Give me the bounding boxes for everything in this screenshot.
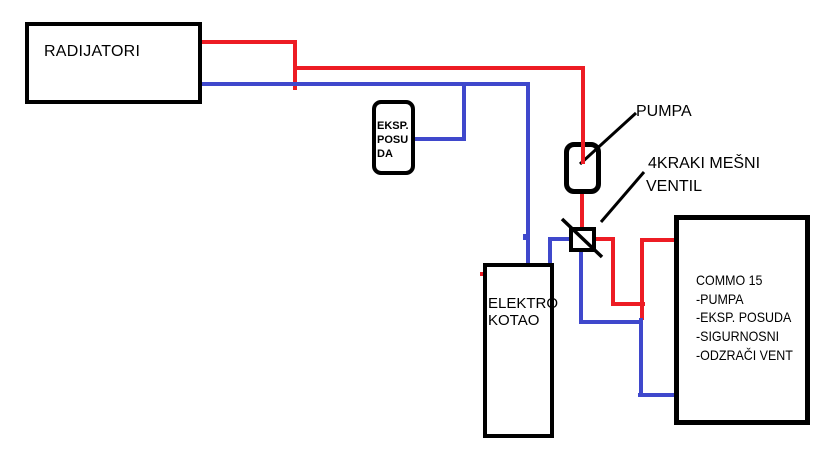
box ELEKTRO KOTAO [483,263,554,438]
wire red: down segment of U loop [611,237,615,306]
wire red: valve right outlet horizontal [595,237,615,241]
box RADIJATORI [25,22,202,104]
wire blue: valve left inlet horizontal [548,237,570,241]
wire blue: valve left drop to kotao top [548,237,552,266]
wire red: up segment of U loop [640,240,644,320]
wire blue: vertical down right side [639,318,643,397]
valve diagonal slash [562,219,602,257]
box EKSP. POSUDA (expansion vessel) [372,100,415,175]
box COMMO 15 [674,215,810,425]
node blue nub on main vertical [523,234,527,240]
pump symbol [564,142,601,194]
valve symbol: square [569,227,596,252]
wire red supply: radiator out horizontal [202,40,297,44]
node yellow tick inside COMMO at blue line [684,393,686,397]
wire blue: expansion vessel branch horizontal [415,137,466,141]
wire blue return: radiator long horizontal [202,82,530,86]
wire blue: into COMMO box horizontal [638,393,676,397]
label PUMPA [636,103,692,121]
node red tick at kotao top-left [480,272,483,276]
label 4KRAKI MESNI VENTIL [648,153,760,198]
wire red supply: first drop vertical (crosses blue return) [293,40,297,90]
pointer line VENTIL [601,172,644,222]
wire red: into COMMO box horizontal [640,238,676,242]
wire blue: horizontal toward COMMO [581,320,643,324]
wire blue: expansion vessel branch vertical [462,84,466,141]
pointer line PUMPA [580,113,636,164]
wire red supply: long horizontal to pump [293,66,585,70]
wire blue: below valve vertical [579,251,583,324]
wire red supply: vertical down to pump top [581,66,585,164]
wire red supply: pump bottom to valve top [580,192,584,229]
wire blue return: main vertical down to kotao [526,82,530,266]
wire red: bottom of U loop horizontal [611,302,645,306]
